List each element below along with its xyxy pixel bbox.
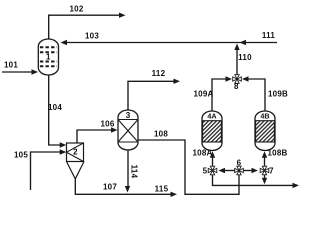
svg-text:5: 5 <box>203 166 208 175</box>
svg-text:7: 7 <box>269 166 274 175</box>
wire stream 112 <box>128 81 176 110</box>
valve 5 <box>208 166 217 175</box>
svg-text:108: 108 <box>154 130 168 139</box>
svg-text:108A: 108A <box>192 149 212 158</box>
svg-text:103: 103 <box>85 32 99 41</box>
arrowhead 108A up into 4A <box>210 151 215 158</box>
svg-text:107: 107 <box>103 183 117 192</box>
arrowhead on line 111 <box>240 40 247 45</box>
X internals of vessel 3 <box>118 120 138 143</box>
wire stream 108 <box>138 140 239 194</box>
valve 7 <box>260 166 269 175</box>
arrowhead 109B into valve 8 <box>242 76 249 81</box>
arrowhead valve 7 down <box>262 178 267 185</box>
svg-text:112: 112 <box>152 69 166 78</box>
vessel 3 <box>118 110 138 150</box>
svg-text:1: 1 <box>46 53 51 62</box>
wire valve 7 down leg <box>264 175 266 180</box>
wire stream 105 <box>31 152 62 190</box>
wire stream 110 <box>236 46 238 75</box>
internal triangle of unit 2 <box>67 143 84 162</box>
svg-text:115: 115 <box>155 184 169 193</box>
arrowhead 103 into column 1 <box>61 40 68 45</box>
wire valve 5 to vessel 4A bottom <box>212 156 214 166</box>
svg-text:104: 104 <box>48 103 62 112</box>
arrowhead 108B up into 4B <box>262 151 267 158</box>
cyclone unit 2 body <box>67 143 85 179</box>
adsorber vessel 4A <box>202 111 222 151</box>
wire stream 109B <box>246 79 265 111</box>
svg-text:4B: 4B <box>260 112 269 121</box>
arrowhead bottom-right outlet <box>293 183 300 188</box>
svg-text:111: 111 <box>262 31 276 40</box>
svg-text:105: 105 <box>14 150 28 159</box>
arrowhead 112 <box>174 79 181 84</box>
cone of unit 2 <box>67 162 85 179</box>
svg-text:109A: 109A <box>193 89 213 98</box>
stream labels <box>4 5 288 194</box>
wire stream 102 <box>49 15 122 39</box>
svg-text:3: 3 <box>126 111 131 120</box>
svg-text:101: 101 <box>4 61 18 70</box>
wire valve 6 to valve 5 <box>222 170 235 172</box>
svg-text:6: 6 <box>237 158 242 167</box>
svg-text:110: 110 <box>238 53 252 62</box>
arrowhead 109A into valve 8 <box>226 76 233 81</box>
wire valve 6 to valve 7 <box>244 170 254 172</box>
arrowhead valve 6 to valve 7 <box>252 168 259 173</box>
tray dashed lines in column 1 <box>40 47 57 66</box>
wire stream 109A <box>212 79 228 111</box>
arrowhead 102 <box>119 13 126 18</box>
svg-text:4A: 4A <box>207 112 216 121</box>
valve 6 <box>235 166 244 175</box>
svg-text:102: 102 <box>69 5 83 14</box>
arrowhead valve 6 to valve 5 <box>219 168 226 173</box>
svg-text:108B: 108B <box>267 149 287 158</box>
wire valve 7 to vessel 4B bottom <box>264 156 266 166</box>
wire stream 114 <box>127 150 129 188</box>
arrowhead 114 down <box>125 186 130 193</box>
column 1 vessel <box>38 39 58 75</box>
adsorber vessel 4B <box>255 111 275 151</box>
wire stream 101 <box>2 71 35 73</box>
wire bottom outlet line from valves 5 and 7 <box>213 175 295 185</box>
arrowhead 104 into unit 2 <box>60 142 66 147</box>
svg-text:8: 8 <box>234 82 239 91</box>
wire stream 106 <box>77 130 113 143</box>
valve 8 <box>233 75 242 84</box>
wire stream 107/115 <box>75 178 172 194</box>
svg-text:114: 114 <box>129 165 138 179</box>
wire stream 104 <box>49 75 62 145</box>
svg-text:109B: 109B <box>268 89 288 98</box>
arrowhead 115 <box>171 192 178 197</box>
arrowhead 101 <box>32 69 39 74</box>
svg-text:2: 2 <box>73 148 78 157</box>
arrowhead 106 into vessel 3 <box>111 127 118 132</box>
wire stream 103/111 top line <box>63 42 277 44</box>
arrowhead 110 up <box>234 44 239 51</box>
svg-text:106: 106 <box>100 119 114 128</box>
arrowhead 105 into unit 2 <box>60 149 66 154</box>
